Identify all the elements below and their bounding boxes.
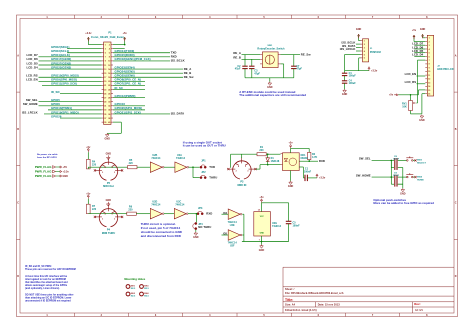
- svg-text:GPIO22(GEN3): GPIO22(GEN3): [51, 65, 71, 69]
- svg-text:B: B: [17, 128, 19, 131]
- svg-text:GPIO26: GPIO26: [51, 114, 62, 118]
- svg-text:2: 2: [102, 218, 103, 220]
- svg-text:ID_SC: ID_SC: [115, 86, 124, 90]
- svg-text:2: 2: [364, 44, 365, 46]
- svg-text:P1: P1: [108, 30, 112, 34]
- svg-text:14: 14: [258, 209, 260, 212]
- svg-text:KiCad E.D.A. kicad (4.0.5): KiCad E.D.A. kicad (4.0.5): [285, 309, 317, 312]
- svg-text:35: 35: [104, 114, 106, 116]
- svg-text:3: 3: [247, 171, 248, 173]
- svg-text:28: 28: [108, 97, 110, 99]
- svg-text:220: 220: [259, 149, 264, 152]
- svg-text:RE_Sw: RE_Sw: [301, 52, 312, 56]
- svg-text:VCC: VCC: [260, 216, 265, 218]
- svg-text:ID_SD and ID_SC PINS:: ID_SD and ID_SC PINS:: [25, 266, 52, 268]
- svg-text:7: 7: [259, 239, 260, 241]
- svg-text:HD44780 LCD: HD44780 LCD: [437, 68, 453, 71]
- svg-text:GND: GND: [106, 153, 112, 156]
- svg-text:1: 1: [429, 38, 430, 40]
- svg-text:GND: GND: [259, 249, 265, 252]
- svg-text:2: 2: [429, 41, 430, 43]
- svg-text:11: 11: [428, 75, 430, 77]
- svg-text:SW_HOME: SW_HOME: [356, 173, 371, 177]
- svg-text:GND: GND: [63, 175, 69, 178]
- svg-text:A: A: [17, 54, 19, 57]
- svg-text:5: 5: [364, 54, 365, 56]
- svg-text:At boot time this I2C interfac: At boot time this I2C interface will be: [25, 275, 68, 278]
- svg-text:GND: GND: [356, 28, 362, 31]
- svg-text:D: D: [455, 275, 457, 278]
- svg-text:4: 4: [429, 48, 430, 51]
- svg-text:ID_SD: ID_SD: [51, 90, 60, 94]
- svg-text:5: 5: [105, 53, 106, 55]
- svg-text:RE_A: RE_A: [233, 51, 241, 55]
- svg-text:+5v: +5v: [412, 29, 417, 32]
- svg-text:+5V: +5V: [63, 166, 68, 169]
- svg-text:16: 16: [108, 73, 110, 75]
- svg-text:4: 4: [105, 213, 106, 216]
- svg-text:Rev:: Rev:: [414, 302, 421, 306]
- svg-text:Mounting Holes: Mounting Holes: [124, 277, 145, 281]
- svg-text:SW_SEL: SW_SEL: [359, 157, 371, 161]
- svg-text:14: 14: [428, 85, 430, 88]
- svg-text:Size: A4: Size: A4: [285, 304, 296, 307]
- svg-text:and disconnected from RXD: and disconnected from RXD: [141, 234, 181, 238]
- svg-text:More can be added to free GPIO: More can be added to free GPIO as requir…: [373, 201, 434, 205]
- svg-text:+3.3v: +3.3v: [371, 70, 378, 73]
- svg-text:20: 20: [108, 81, 110, 83]
- svg-text:74HC14: 74HC14: [151, 203, 161, 206]
- svg-text:Title:: Title:: [285, 298, 293, 302]
- svg-text:29: 29: [104, 102, 106, 104]
- svg-text:LCD_RS: LCD_RS: [405, 80, 417, 84]
- svg-text:3: 3: [114, 218, 115, 220]
- svg-text:PWR_FLAG: PWR_FLAG: [35, 165, 52, 169]
- svg-text:allows automagic setup of the: allows automagic setup of the GPIOs: [25, 284, 68, 287]
- svg-text:13: 13: [428, 82, 430, 84]
- svg-text:30: 30: [108, 102, 110, 104]
- svg-text:C: C: [17, 202, 19, 205]
- svg-text:10: 10: [428, 71, 430, 73]
- svg-text:3: 3: [105, 48, 106, 50]
- svg-text:5: 5: [112, 167, 113, 169]
- svg-text:17: 17: [104, 77, 106, 79]
- svg-text:SW3: SW3: [417, 160, 423, 162]
- svg-text:HOME: HOME: [417, 179, 424, 181]
- svg-text:39: 39: [104, 122, 106, 124]
- svg-text:MIDI IN: MIDI IN: [237, 184, 246, 187]
- svg-text:220: 220: [92, 163, 97, 166]
- svg-text:12: 12: [428, 79, 430, 81]
- svg-text:M2.5: M2.5: [131, 295, 135, 297]
- svg-text:6N138: 6N138: [301, 157, 309, 160]
- svg-text:interrogated to look for an EE: interrogated to look for an EEPROM: [25, 278, 66, 281]
- svg-text:+3.3v: +3.3v: [63, 170, 70, 173]
- svg-text:LCD_EN: LCD_EN: [26, 78, 38, 82]
- svg-text:GPIO11(SPI0_SCK): GPIO11(SPI0_SCK): [51, 82, 77, 86]
- svg-text:12: 12: [108, 65, 110, 67]
- svg-text:10: 10: [108, 61, 110, 63]
- svg-text:+5v: +5v: [123, 32, 128, 35]
- svg-text:MIDI Out: MIDI Out: [103, 185, 114, 188]
- svg-text:RXD: RXD: [319, 159, 325, 163]
- svg-text:5: 5: [112, 214, 113, 216]
- svg-text:U2F: U2F: [230, 245, 235, 248]
- svg-text:GND: GND: [260, 233, 265, 235]
- svg-text:37: 37: [104, 118, 106, 120]
- svg-text:LCD_EN: LCD_EN: [405, 72, 417, 76]
- svg-text:TXD: TXD: [209, 165, 215, 169]
- svg-text:JP1: JP1: [201, 160, 206, 163]
- svg-text:15: 15: [104, 73, 106, 75]
- svg-text:THRU: THRU: [209, 175, 217, 179]
- svg-text:1: 1: [364, 40, 365, 42]
- svg-text:1: 1: [105, 44, 106, 46]
- svg-text:+5v: +5v: [288, 141, 293, 144]
- svg-text:GPIO18(GEN1)(PCM_CLK): GPIO18(GEN1)(PCM_CLK): [115, 57, 151, 61]
- svg-text:I2S_DATA: I2S_DATA: [171, 112, 185, 116]
- svg-text:GND: GND: [342, 93, 348, 96]
- svg-text:than attaching an I2C ID EEPRO: than attaching an I2C ID EEPROM. Leave: [25, 296, 72, 299]
- svg-text:JP3: JP3: [198, 207, 203, 210]
- svg-text:RE_B: RE_B: [233, 56, 241, 60]
- svg-text:220: 220: [128, 208, 133, 211]
- svg-text:18: 18: [108, 77, 110, 79]
- svg-text:M2.5: M2.5: [144, 295, 148, 297]
- svg-text:9: 9: [429, 67, 430, 69]
- svg-text:74HC14: 74HC14: [151, 157, 161, 160]
- svg-text:100nF: 100nF: [304, 170, 312, 173]
- svg-text:2: 2: [109, 44, 110, 46]
- svg-text:15: 15: [428, 90, 430, 92]
- svg-text:PCM5102: PCM5102: [370, 51, 382, 54]
- svg-text:9: 9: [105, 61, 106, 63]
- svg-text:21: 21: [104, 85, 106, 87]
- svg-text:47pF: 47pF: [235, 68, 241, 71]
- svg-text:These pins are reserved for HA: These pins are reserved for HAT ID EEPRO…: [25, 268, 76, 271]
- svg-text:40: 40: [108, 121, 110, 124]
- svg-text:+5v: +5v: [259, 196, 264, 199]
- svg-text:7: 7: [429, 60, 430, 62]
- svg-text:I2S_BCLK: I2S_BCLK: [171, 59, 185, 63]
- svg-text:GPIO12(PWM0): GPIO12(PWM0): [115, 94, 136, 98]
- svg-text:D: D: [17, 275, 19, 278]
- svg-text:27: 27: [104, 97, 106, 99]
- svg-text:23: 23: [104, 89, 106, 91]
- svg-text:M2.5: M2.5: [131, 288, 135, 290]
- svg-text:5: 5: [245, 166, 246, 168]
- svg-text:10K: 10K: [402, 106, 407, 109]
- svg-text:RE_Sw: RE_Sw: [184, 75, 195, 79]
- svg-text:File: RPi-MiniJack-IOBoard-HD4: File: RPi-MiniJack-IOBoard-HD44780.kicad…: [285, 292, 344, 295]
- svg-text:3: 3: [429, 45, 430, 47]
- svg-text:JP2: JP2: [201, 171, 206, 174]
- svg-text:36: 36: [108, 114, 110, 116]
- svg-text:+5v: +5v: [389, 94, 394, 97]
- svg-text:74HC14: 74HC14: [176, 157, 186, 160]
- svg-text:4: 4: [238, 165, 239, 168]
- svg-text:26: 26: [108, 93, 110, 95]
- svg-text:U2E: U2E: [230, 224, 235, 227]
- svg-text:8: 8: [109, 57, 110, 59]
- svg-text:100uF: 100uF: [349, 82, 357, 85]
- svg-text:47pF: 47pF: [296, 68, 302, 71]
- svg-text:13: 13: [104, 69, 106, 71]
- svg-text:RotaryEncoder_Switch: RotaryEncoder_Switch: [257, 47, 285, 50]
- svg-text:GND: GND: [419, 119, 425, 122]
- svg-text:220: 220: [129, 162, 134, 165]
- svg-text:GND: GND: [106, 199, 112, 202]
- svg-text:11: 11: [104, 65, 106, 67]
- svg-text:Id: 1/1: Id: 1/1: [415, 309, 423, 312]
- svg-text:It can be used as OUT or THRU: It can be used as OUT or THRU: [183, 144, 226, 148]
- svg-text:I2S_LRCLK: I2S_LRCLK: [340, 47, 356, 51]
- svg-text:Date: 15 nov 2013: Date: 15 nov 2013: [318, 304, 341, 307]
- svg-text:5: 5: [429, 53, 430, 55]
- svg-text:GND: GND: [104, 138, 110, 141]
- svg-text:RXD: RXD: [206, 211, 212, 215]
- svg-text:GND: GND: [193, 236, 199, 239]
- svg-text:3: 3: [114, 172, 115, 174]
- svg-text:The additional capacitors are: The additional capacitors are still reco…: [239, 93, 306, 97]
- svg-text:16: 16: [428, 94, 430, 96]
- svg-text:unconnected if ID EEPROM not r: unconnected if ID EEPROM not required: [25, 299, 71, 302]
- svg-text:4.7K: 4.7K: [312, 156, 317, 159]
- svg-text:4: 4: [105, 166, 106, 169]
- svg-text:GND: GND: [288, 185, 294, 188]
- svg-text:SELECT: SELECT: [417, 163, 427, 165]
- svg-text:31: 31: [104, 106, 106, 108]
- svg-text:SW_HOME: SW_HOME: [23, 102, 38, 106]
- svg-text:+5v: +5v: [86, 192, 91, 195]
- svg-text:LCD_D4: LCD_D4: [26, 65, 38, 69]
- svg-text:2: 2: [236, 171, 237, 173]
- svg-text:No power via cable: No power via cable: [37, 154, 58, 156]
- svg-text:+3.3v: +3.3v: [85, 32, 92, 35]
- svg-text:74HC14: 74HC14: [175, 203, 185, 206]
- svg-text:GND: GND: [267, 86, 273, 89]
- svg-text:MIDI THRU: MIDI THRU: [102, 232, 116, 235]
- svg-text:33: 33: [104, 110, 106, 112]
- svg-text:8: 8: [429, 64, 430, 66]
- svg-text:M2.5: M2.5: [144, 288, 148, 290]
- svg-text:+3.3v: +3.3v: [319, 177, 326, 180]
- svg-text:GPIO21(SPI1_SCK): GPIO21(SPI1_SCK): [115, 110, 141, 114]
- svg-text:6: 6: [429, 56, 430, 58]
- svg-text:7: 7: [105, 57, 106, 59]
- svg-text:GND: GND: [420, 28, 426, 31]
- svg-text:DO NOT USE these pins for anyt: DO NOT USE these pins for anything other: [25, 293, 73, 296]
- svg-text:+5v: +5v: [86, 146, 91, 149]
- svg-text:B: B: [455, 128, 457, 131]
- svg-text:6: 6: [109, 53, 110, 55]
- svg-text:47pF: 47pF: [254, 72, 260, 75]
- svg-text:25: 25: [104, 93, 106, 95]
- svg-text:2: 2: [102, 172, 103, 174]
- svg-text:6: 6: [364, 58, 365, 60]
- svg-text:Conn_02x20_Odd_Even: Conn_02x20_Odd_Even: [91, 35, 124, 39]
- svg-text:22: 22: [108, 85, 110, 87]
- svg-text:38: 38: [108, 118, 110, 120]
- svg-text:from the RPi GPIO: from the RPi GPIO: [37, 156, 57, 159]
- svg-text:Sheet: /: Sheet: /: [285, 288, 295, 291]
- svg-text:A: A: [455, 54, 457, 57]
- svg-text:3: 3: [364, 47, 365, 49]
- svg-text:100uF: 100uF: [349, 75, 357, 78]
- svg-text:NO THRU: NO THRU: [198, 225, 211, 229]
- svg-text:1N4148: 1N4148: [271, 160, 280, 163]
- svg-text:I2S_LRCLK: I2S_LRCLK: [22, 110, 38, 114]
- svg-text:32: 32: [108, 106, 110, 108]
- svg-text:220: 220: [92, 208, 97, 211]
- svg-text:SW4: SW4: [417, 175, 423, 178]
- svg-text:that identifies the attached b: that identifies the attached board and: [25, 281, 68, 284]
- svg-text:GND: GND: [400, 193, 406, 196]
- svg-text:19: 19: [104, 81, 106, 83]
- svg-text:PWR_FLAG: PWR_FLAG: [35, 174, 52, 178]
- svg-text:PWR_FLAG: PWR_FLAG: [35, 169, 52, 173]
- svg-text:C: C: [455, 202, 457, 205]
- svg-text:100nF: 100nF: [293, 224, 301, 227]
- svg-text:(and optionally, Linux drivers: (and optionally, Linux drivers).: [25, 287, 60, 290]
- svg-text:74HC14: 74HC14: [272, 225, 282, 228]
